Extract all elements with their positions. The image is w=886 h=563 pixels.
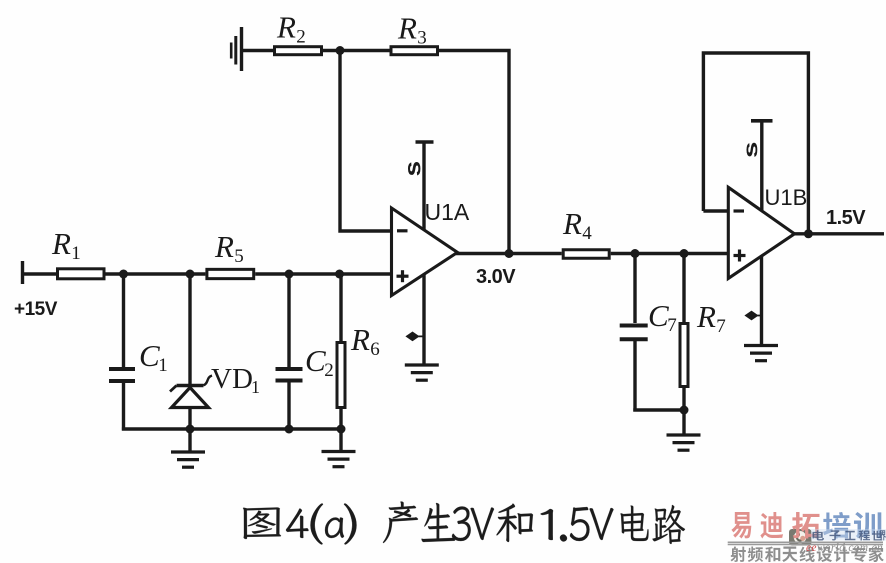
wire R3 to output node B (right and down) [439,51,509,254]
op-amp U1A body [392,208,458,296]
svg-text:+15V: +15V [14,299,58,320]
svg-text:R: R [276,10,296,45]
svg-text:C: C [305,343,326,378]
ground below R7 [667,433,701,436]
watermark text 易迪拓培训 [731,512,881,539]
node A junction (R2/R3/feedback) [336,46,345,55]
zener diode VD1 [170,274,209,431]
ground below R6 [322,450,356,453]
watermark text 射频和天线设计专家 [731,546,884,562]
watermark text 电子工程世界 [812,530,885,540]
resistor R6 [337,274,345,451]
capacitor C7 [620,254,648,412]
watermark light blue highlight [811,529,886,541]
U1B power pin number (rotated s) [746,143,757,157]
label R3 [397,11,427,49]
U1B pin 4 marker (diamond) [746,312,761,320]
wire R1 to R5 [106,272,206,275]
resistor R3 [391,47,438,55]
ground below VD1 [171,450,205,453]
node VD1 junction [186,270,195,279]
label R6 [350,322,380,360]
svg-text:R: R [397,11,417,46]
wire U1B feedback loop [703,53,808,232]
svg-text:R: R [214,229,234,264]
wire R2 to node A [323,49,340,52]
U1B V+ power pin with top bar [751,121,773,211]
wire U1B output [793,232,884,235]
ground below U1A [405,363,439,366]
U1B V- pin to ground [760,256,763,345]
svg-text:3: 3 [417,28,427,49]
svg-text:5: 5 [234,246,244,267]
node C7 junction [631,249,640,258]
node R7 ground junction [680,406,689,415]
wire R5 to U1A non-inverting input [255,272,391,275]
resistor R2 [275,47,322,55]
node C2 junction [285,270,294,279]
bus junction at VD1 [186,425,195,434]
U1A power pin number (rotated s) [408,162,420,175]
svg-text:R: R [350,322,370,357]
svg-text:U1B: U1B [765,185,808,210]
svg-text:4: 4 [582,223,592,244]
label R1 [51,226,81,264]
label C7 [648,298,677,336]
U1A inverting input symbol [397,229,408,232]
wire terminal to R1 [23,272,57,275]
node B junction (feedback R3 / output) [505,249,514,258]
svg-text:6: 6 [370,339,380,360]
U1B inverting input symbol [734,209,745,212]
svg-text:3.0V: 3.0V [476,266,516,288]
node R7 junction [680,249,689,258]
label C2 [305,343,334,381]
svg-text:2: 2 [324,360,334,381]
svg-text:R: R [51,226,71,261]
resistor R1 [58,269,105,279]
caption 图4(a) 产生3V和1.5V电路 [243,501,685,544]
svg-text:7: 7 [667,315,677,336]
U1B non-inverting input symbol [734,250,746,262]
svg-text:C: C [648,298,669,333]
svg-text:7: 7 [716,316,726,337]
svg-text:R: R [562,206,582,241]
resistor R4 [563,250,609,259]
wire GND1 to R2 [242,49,275,52]
wire C7 to R7 bottom bus [633,408,684,411]
capacitor C2 [276,274,303,431]
bus junction at R6 [337,425,346,434]
node D junction (U1B output/feedback) [804,229,813,238]
svg-text:1.5V: 1.5V [826,207,866,229]
VD1 leader line [204,376,213,386]
label R5 [214,229,244,267]
svg-text:eeworld.com.cn: eeworld.com.cn [806,542,883,554]
label R7 [696,299,726,337]
label R4 [562,206,592,244]
svg-text:1: 1 [71,243,81,264]
svg-text:VD: VD [211,363,253,395]
bus junction at C2 [285,425,294,434]
label C1 [139,338,168,376]
watermark logo (eeworld) [789,529,812,546]
wire feedback to U1B inverting input [703,209,728,212]
wire VD1 to ground [188,429,191,451]
svg-text:R: R [696,299,716,334]
wire R4 to U1B non-inverting input [611,252,729,255]
label R2 [276,10,306,48]
resistor R5 [207,269,254,278]
watermark double underline [728,542,883,544]
resistor R7 [680,254,688,435]
ground GND1 (sideways, feeding R2) [231,27,241,71]
input terminal tick [21,261,24,284]
ground bus wire (bottom left) [122,427,341,430]
svg-text:1: 1 [251,377,260,397]
U1A non-inverting input symbol [397,270,409,282]
svg-text:U1A: U1A [425,199,470,225]
U1A V+ power pin with top bar [416,142,434,230]
wire U1A output to R4 [456,252,562,255]
wire feedback node A to U1A inverting input [340,51,392,232]
U1A V- pin to ground [422,274,425,365]
svg-text:1: 1 [158,355,168,376]
svg-text:C: C [139,338,160,373]
capacitor C1 [109,274,135,431]
U1A pin 4 marker (diamond) [407,333,423,341]
ground below U1B [744,344,778,347]
svg-text:2: 2 [296,27,306,48]
op-amp U1B body [728,187,794,278]
node R6 junction [335,270,344,279]
wire node A to R3 [340,49,390,52]
node C1 junction [119,270,128,279]
